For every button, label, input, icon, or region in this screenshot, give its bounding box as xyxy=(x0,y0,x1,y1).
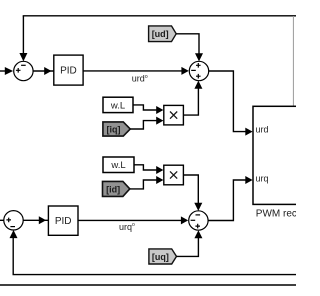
arrowhead into sum S2 top xyxy=(195,53,203,61)
sum S1 xyxy=(14,61,33,80)
arrowhead into X2 input 1 xyxy=(156,166,163,174)
product block X2 xyxy=(164,165,184,185)
product block X1 xyxy=(164,105,184,125)
PID controller PID1 xyxy=(54,55,83,85)
from tag [id] xyxy=(103,181,130,196)
sum S4 xyxy=(4,211,23,230)
arrowhead into sum S3 bottom xyxy=(194,230,202,238)
wire X1 to sum S2 bottom xyxy=(183,88,198,116)
arrowhead into sum S4 bottom xyxy=(10,230,18,238)
wire right faint vertical xyxy=(292,16,294,106)
wire S1 to PID1 xyxy=(33,70,54,72)
wire S2 to PWM urd input xyxy=(209,71,246,132)
wire [uq] to sum S3 bottom xyxy=(177,238,199,257)
arrowhead into sum S3 left xyxy=(181,216,188,224)
from tag [ud] xyxy=(149,26,177,42)
svg-text:[uq]: [uq] xyxy=(152,252,169,262)
gain block w.L (lower) xyxy=(103,157,134,173)
wire X2 to sum S3 top xyxy=(183,175,198,204)
wire w.L to product X1 xyxy=(133,105,157,110)
arrowhead into sum S1 top xyxy=(19,53,27,61)
svg-text:urd: urd xyxy=(256,124,269,134)
arrowhead into X1 input 2 xyxy=(156,117,163,125)
arrowhead into X2 input 2 xyxy=(156,176,163,184)
gain block w.L (upper) xyxy=(103,97,133,112)
svg-text:urq: urq xyxy=(256,174,269,184)
PWM rectifier block xyxy=(253,106,313,204)
wire [ud] to sum S2 top xyxy=(176,34,199,55)
arrowhead into PWM urq port xyxy=(245,176,252,184)
sum S3 xyxy=(189,211,208,230)
svg-text:urdo: urdo xyxy=(132,74,148,84)
wire top feedback xyxy=(23,16,296,55)
PID controller PID2 xyxy=(48,206,78,235)
arrowhead into sum S2 left xyxy=(181,67,188,75)
wire input iq* stub left xyxy=(0,219,4,221)
wire bottom horizontal full width xyxy=(0,284,296,286)
svg-text:[id]: [id] xyxy=(106,184,120,194)
svg-text:PID: PID xyxy=(60,66,77,77)
arrowhead into PID1 xyxy=(44,67,51,75)
arrowhead into sum S1 left xyxy=(5,67,13,75)
svg-text:[iq]: [iq] xyxy=(107,124,121,134)
svg-text:PID: PID xyxy=(55,216,72,227)
arrowhead into PID2 xyxy=(39,216,46,224)
arrowhead into sum S2 bottom xyxy=(194,81,202,89)
wire [id] to product X2 xyxy=(130,180,157,189)
from tag [uq] xyxy=(149,249,177,264)
wire PID2 to sum S3 xyxy=(78,219,185,221)
svg-text:[ud]: [ud] xyxy=(152,29,169,39)
sum S2 xyxy=(189,61,208,80)
arrowhead into sum S3 top xyxy=(194,203,202,211)
wire PID1 to sum S2 xyxy=(83,70,185,72)
wire S4 to PID2 xyxy=(23,219,48,221)
svg-text:PWM rectifier: PWM rectifier xyxy=(256,209,296,220)
svg-text:urqo: urqo xyxy=(119,222,135,232)
arrowhead into PWM urd port xyxy=(245,128,252,136)
from tag [iq] xyxy=(103,122,130,136)
wire w.L lower to product X2 xyxy=(134,165,157,170)
svg-text:w.L: w.L xyxy=(110,100,125,111)
arrowhead into X1 input 1 xyxy=(156,106,163,114)
wire [iq] to product X1 xyxy=(130,121,156,129)
wire input id* from left xyxy=(0,70,8,72)
wire bottom feedback to S4 xyxy=(13,238,296,275)
svg-text:w.L: w.L xyxy=(110,160,125,171)
wire S3 to PWM urq input xyxy=(208,180,246,221)
